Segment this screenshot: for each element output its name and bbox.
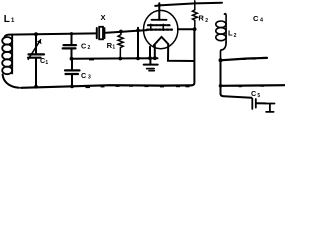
svg-text:1: 1: [112, 45, 115, 51]
wire bottom rail bumps: [86, 59, 265, 88]
inductor L1: [2, 35, 12, 74]
junction R1 bottom: [118, 57, 122, 61]
filament of V1: [154, 37, 169, 45]
wire grid-to-cathode vertical: [137, 28, 139, 59]
resistor R1: [118, 31, 123, 58]
svg-text:C: C: [81, 71, 86, 80]
svg-text:1: 1: [11, 18, 15, 24]
junction B+ line blob: [239, 86, 242, 88]
svg-text:X: X: [101, 13, 106, 22]
svg-text:1: 1: [45, 60, 48, 66]
wire L1 bottom lead: [3, 75, 19, 88]
junction L2 bottom node: [219, 58, 223, 62]
label L1: [4, 14, 15, 25]
svg-text:R: R: [198, 13, 204, 22]
label C4: [253, 14, 263, 24]
svg-text:4: 4: [260, 18, 263, 24]
svg-text:5: 5: [257, 93, 260, 99]
junction C2 top: [70, 32, 73, 35]
label X: [101, 13, 106, 22]
junction plate lead top: [158, 4, 161, 7]
label C2: [81, 42, 91, 52]
junction grid-cathode vertical top: [136, 29, 140, 33]
wire cathode line (midpoint to tube cathode): [72, 57, 158, 60]
svg-text:C: C: [251, 89, 256, 98]
junction cathode stub left: [148, 56, 152, 60]
wire bottom rail: [21, 85, 191, 88]
junction grid-cathode vertical bottom: [136, 57, 140, 61]
junction R1 top: [119, 30, 123, 34]
wire R2 node down to bottom rail: [191, 29, 194, 85]
grid of V1 (upper dashed row): [148, 24, 170, 26]
wire B+ line: [221, 84, 286, 87]
svg-text:2: 2: [205, 18, 208, 24]
wire top rail left (L1 top to crystal): [5, 33, 97, 37]
svg-text:2: 2: [234, 33, 237, 39]
grid of V1 (lower dashed row): [147, 29, 172, 31]
wire screen lead (tube to R2 node): [178, 28, 195, 30]
junction B+ node: [219, 84, 223, 88]
wire L2 bottom lead: [221, 42, 227, 60]
label R1: [107, 41, 116, 51]
capacitor C2: [63, 34, 76, 59]
ground: [144, 58, 158, 70]
svg-text:L: L: [4, 14, 10, 25]
wire B+ node down to C5: [221, 86, 252, 98]
junction C1 top: [34, 32, 38, 36]
svg-text:C: C: [81, 42, 86, 51]
wire top rail right (plate to L2): [159, 3, 222, 6]
wire cathode stub left: [149, 47, 151, 58]
label C5: [251, 89, 260, 99]
capacitor C3: [65, 59, 80, 87]
svg-text:C: C: [253, 14, 259, 23]
label C1: [40, 56, 48, 66]
junction C1 bottom: [34, 85, 38, 89]
label C3: [81, 71, 91, 81]
label L2: [228, 29, 237, 39]
inductor L2: [216, 14, 226, 42]
label R2: [198, 13, 208, 23]
junction C2-C3 midpoint: [70, 57, 74, 61]
capacitor C4 plate line: [221, 57, 268, 60]
svg-text:2: 2: [88, 45, 91, 51]
svg-text:3: 3: [88, 74, 91, 80]
variable capacitor C1: [28, 34, 44, 86]
tube envelope V1: [144, 10, 178, 48]
wire filament right lead: [168, 44, 194, 61]
capacitor C5: [252, 99, 265, 109]
ground terminal (I-bar): [266, 104, 275, 112]
junction cathode stub right: [153, 56, 157, 60]
crystal X: [97, 27, 105, 40]
wire cathode stub right: [154, 45, 156, 58]
junction C3 bottom: [70, 85, 74, 89]
junction R2 bottom: [193, 27, 197, 31]
plate of V1: [152, 3, 167, 20]
wire L2 node down to B+ node: [220, 60, 222, 86]
wire grid line (crystal to tube): [106, 30, 147, 33]
resistor R2: [193, 1, 198, 29]
svg-text:L: L: [228, 29, 233, 38]
